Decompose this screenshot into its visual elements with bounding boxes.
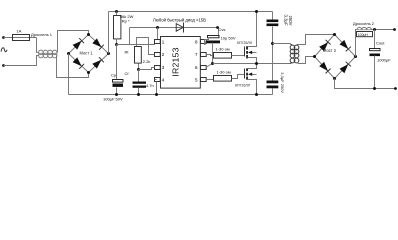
wire bridge2 DC+ up to choke2	[356, 30, 357, 57]
svg-text:3,3μF: 3,3μF	[284, 15, 289, 26]
svg-text:Cout: Cout	[376, 41, 385, 46]
wire bridge1 DC- down to ground rail	[68, 54, 70, 95]
wire bridge2 DC- to output minus	[335, 79, 396, 89]
output minus terminal	[394, 87, 397, 90]
wire Vcc branch up to bootstrap diode line	[129, 28, 131, 45]
choke L2 core box with 100uH	[357, 32, 373, 37]
AC mains source terminal top	[2, 36, 5, 39]
svg-text:3,3μF 250V: 3,3μF 250V	[280, 72, 285, 93]
wire pin5 to gate resistor 2	[206, 79, 214, 81]
svg-text:Rp *: Rp *	[122, 19, 130, 24]
svg-text:100μН: 100μН	[358, 33, 369, 37]
IC U1 IR2153 body	[161, 37, 201, 89]
svg-text:1A: 1A	[17, 29, 22, 34]
diode D3 (left-bottom edge)	[73, 57, 82, 66]
diode VD1 fast diode	[176, 24, 183, 32]
transistor VT1 top MOSFET	[245, 12, 257, 64]
capacitor Cvs 10u 50V	[208, 36, 220, 38]
svg-text:250V: 250V	[288, 16, 293, 26]
pin 1 stub	[155, 40, 161, 44]
pin 3 stub	[155, 66, 161, 70]
wire secondary bottom to bridge2 left	[297, 57, 315, 64]
svg-text:1-30 ом: 1-30 ом	[217, 69, 231, 74]
node bridge2 bottom	[333, 77, 336, 80]
pin 2 stub	[155, 53, 161, 57]
choke L1 bottom winding	[39, 53, 57, 58]
node VS junction	[211, 62, 214, 65]
svg-text:КП726ЛЛ: КП726ЛЛ	[235, 84, 251, 88]
transformer T1 primary winding	[290, 44, 295, 64]
wire midpoint to transformer primary top	[273, 43, 291, 45]
node bridge1 top	[87, 33, 90, 36]
ground bottom rail	[69, 94, 273, 96]
wire junction to pin3	[139, 68, 155, 70]
node bridge2 top	[333, 33, 336, 36]
wire secondary top to bridge2 top	[297, 35, 335, 45]
AC mains source terminal bottom	[2, 64, 5, 67]
wire pin2 to Rt top	[137, 38, 155, 55]
svg-text:Cp: Cp	[111, 73, 117, 78]
svg-text:Дроссель 1: Дроссель 1	[31, 32, 53, 37]
svg-text:1000μF: 1000μF	[377, 58, 391, 63]
svg-text:Мост 2: Мост 2	[323, 48, 337, 53]
wire bridge1 DC+ up to +310V rail	[108, 12, 110, 54]
+310V top rail	[109, 11, 273, 13]
svg-text:Cvs: Cvs	[219, 27, 226, 32]
capacitor C4 3.3uF 250V	[267, 81, 279, 84]
diode D6 (top-right edge)	[340, 40, 349, 49]
node diode line / pin1 riser	[156, 26, 159, 29]
node Cvs corner	[216, 26, 219, 29]
capacitor C3 3.3uF 250V	[272, 12, 274, 20]
resistor Rg1 1-30 om	[214, 53, 232, 59]
svg-text:1-30 ом: 1-30 ом	[216, 46, 230, 51]
node FET drain on rail	[255, 10, 258, 13]
diode D4 (bottom-right edge)	[92, 60, 101, 69]
output plus terminal	[393, 28, 396, 31]
wire choke bottom-left to AC bottom	[4, 56, 39, 66]
pin 6 stub	[201, 66, 207, 70]
node capacitor divider midpoint	[271, 42, 274, 45]
wire choke bottom-right to bridge1 bottom	[57, 56, 89, 78]
pin 8 stub	[201, 40, 207, 44]
svg-text:4.7n: 4.7n	[146, 83, 154, 88]
node Cout ground	[373, 87, 376, 90]
wire riser to pin1	[157, 28, 159, 40]
resistor Rg2 1-30 om	[214, 76, 232, 82]
capacitor Cout 1000uF	[374, 30, 376, 49]
capacitor Cf 4.7n	[133, 82, 147, 84]
wire pin4 to ground	[155, 80, 157, 95]
pin 5 stub	[201, 78, 207, 82]
bridge rectifier Мост 1	[67, 33, 110, 74]
node bridge2 right	[354, 55, 357, 58]
resistor Rp 56k 2W	[116, 12, 118, 16]
node Vcc junction	[115, 43, 118, 46]
wire choke top-right to bridge1 top	[58, 31, 89, 53]
wire AC top to fuse	[4, 37, 13, 39]
bridge rectifier Мост 2	[313, 33, 357, 80]
diode D1 (left-top edge)	[73, 41, 82, 50]
pin 7 stub	[201, 53, 207, 57]
svg-text:Любой быстрый диод >15В: Любой быстрый диод >15В	[153, 17, 206, 22]
diode D8 (bottom-right edge)	[340, 64, 349, 73]
fuse FU1 1A	[13, 37, 37, 39]
svg-text:КП726ЛЛ: КП726ЛЛ	[237, 41, 253, 45]
transistor VT2 bottom MOSFET	[245, 64, 257, 95]
svg-text:Дроссель 2: Дроссель 2	[353, 21, 375, 26]
output plus wire	[372, 29, 395, 31]
node Cout tap	[373, 28, 376, 31]
node FET source ground	[255, 93, 258, 96]
wire Vcc node to IC pin1	[117, 43, 155, 45]
node bridge1 left	[67, 52, 70, 55]
svg-text:2.2k: 2.2k	[143, 59, 151, 64]
diode D7 (left-bottom edge)	[319, 62, 328, 71]
wire junction down to Cf	[138, 70, 140, 82]
node pin4 ground	[155, 93, 158, 96]
node bridge1 bottom	[87, 71, 90, 74]
node bridge1 right	[107, 52, 110, 55]
pin 4 stub	[155, 78, 161, 82]
choke L2 Дроссель 2	[357, 27, 371, 29]
diode D5 (left-top edge)	[319, 42, 328, 51]
node bridge2 left	[313, 55, 316, 58]
wire pin6 VS diagonal	[206, 64, 213, 68]
AC sine symbol	[1, 47, 7, 52]
transformer T1 secondary winding	[294, 45, 299, 63]
capacitor Cp 100uF 50V	[116, 45, 118, 80]
wire pin7 to gate resistor 1	[206, 55, 214, 56]
node midpoint FET	[255, 62, 258, 65]
wire pin8 to Cvs top (staircase)	[205, 38, 209, 45]
half-bridge midpoint wire to transformer primary bottom	[213, 63, 291, 65]
node Cp ground	[115, 93, 118, 96]
svg-text:10μ 50V: 10μ 50V	[221, 35, 236, 40]
diode D2 (top-right edge)	[92, 38, 101, 47]
bootstrap diode line	[130, 28, 219, 36]
node rail / 56k top	[115, 10, 118, 13]
node Cf ground	[137, 93, 140, 96]
wire fuse to choke top-left	[37, 38, 39, 53]
resistor Rt 2.2k	[135, 47, 142, 64]
choke L1 top winding	[39, 50, 57, 55]
svg-text:IR2153: IR2153	[171, 47, 181, 76]
svg-text:Мост 1: Мост 1	[80, 50, 94, 55]
node Rt/Ct junction	[137, 68, 140, 71]
svg-text:100μF 50V: 100μF 50V	[103, 96, 123, 101]
